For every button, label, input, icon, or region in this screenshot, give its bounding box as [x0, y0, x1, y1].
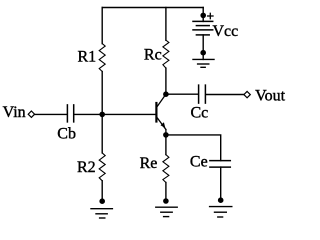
junction dot at R2 ground [99, 198, 105, 204]
ground below Ce [210, 207, 232, 217]
svg-text:Vcc: Vcc [213, 23, 239, 40]
terminal Vout (diamond) [244, 91, 250, 97]
wire emitter node to Ce branch [166, 135, 221, 161]
svg-text:Rc: Rc [144, 46, 162, 63]
wire Vin terminal to Cb [35, 113, 67, 115]
capacitor Ce [210, 161, 230, 168]
junction dot Vcc top [200, 13, 206, 19]
wire battery to Vcc ground [202, 35, 204, 60]
wire base node down to R2 [101, 114, 103, 152]
wire Rc branch from top rail [165, 8, 167, 41]
terminal Vin (diamond) [28, 111, 34, 117]
wire base node to transistor base [102, 113, 155, 115]
wire Ce to ground [220, 167, 222, 200]
wire R2 bottom to ground [101, 181, 103, 201]
capacitor Cb [67, 105, 73, 122]
capacitor Cc [199, 85, 206, 103]
battery Vcc [193, 21, 213, 35]
svg-text:R2: R2 [77, 159, 96, 176]
wire Cc to Vout terminal [206, 94, 244, 96]
junction dot Vcc ground [200, 50, 206, 56]
ground below Vcc battery [193, 59, 214, 67]
node emitter junction dot [163, 132, 169, 138]
ground below R2 [91, 209, 112, 218]
wire Cb to base node [74, 113, 102, 115]
wire Vcc branch from top rail [202, 8, 204, 22]
ground below Re [156, 207, 177, 216]
svg-text:Cb: Cb [57, 126, 76, 143]
resistor Rc [163, 40, 169, 68]
wire Rc to collector node [165, 68, 167, 94]
wire Re bottom to ground [165, 183, 167, 202]
resistor R1 [99, 44, 105, 72]
node collector junction dot [163, 91, 169, 97]
wire emitter node down to Re [165, 135, 167, 155]
node base junction dot [99, 112, 105, 118]
resistor R2 [99, 153, 105, 181]
svg-text:Vin: Vin [3, 104, 26, 121]
svg-text:Vout: Vout [255, 87, 285, 104]
svg-text:R1: R1 [78, 48, 97, 65]
wire R1 branch from top rail [101, 8, 103, 44]
plus sign [208, 13, 213, 18]
wire R1 bottom to base node [101, 72, 103, 115]
svg-text:Ce: Ce [190, 154, 208, 171]
svg-text:Re: Re [140, 155, 158, 172]
resistor Re [163, 155, 169, 183]
junction dot at Re ground [163, 198, 169, 204]
wire top rail [102, 7, 203, 9]
junction dot at Ce ground [218, 197, 224, 203]
wire collector node to Cc [166, 93, 198, 95]
transistor Q1 [156, 94, 166, 135]
svg-text:Cc: Cc [191, 104, 209, 121]
